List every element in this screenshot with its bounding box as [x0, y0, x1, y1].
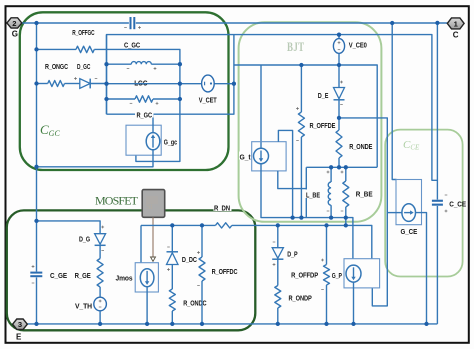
svg-text:C: C: [453, 30, 459, 39]
label V_CE0: [349, 41, 367, 50]
wire Jmos bottom stem: [146, 287, 148, 324]
svg-text:R_BE: R_BE: [356, 190, 373, 199]
current source G_P: [346, 265, 361, 282]
junction: [104, 97, 108, 101]
wire G_t box top loop: [278, 130, 292, 217]
junction: [34, 21, 38, 25]
label R_OFFDC: [212, 267, 238, 276]
junction: [290, 215, 294, 219]
svg-text:G_t: G_t: [240, 153, 252, 162]
capacitor C_GC: [124, 17, 141, 29]
junction: [104, 62, 108, 66]
svg-text:R_ONGC: R_ONGC: [45, 62, 68, 71]
resistor R_ONGC: [37, 81, 80, 87]
resistor R_ONDC: [169, 289, 175, 324]
label region MOSFET: [95, 194, 139, 208]
svg-text:E: E: [16, 333, 22, 342]
resistor R_ONDP: [275, 286, 281, 324]
svg-text:R_ONDC: R_ONDC: [183, 298, 206, 307]
svg-text:R_OFFDC: R_OFFDC: [212, 267, 238, 276]
junction: [200, 223, 204, 227]
junction: [351, 322, 355, 326]
wire L_BE section top y=167.3: [306, 167, 377, 217]
current source G_P box: [344, 259, 380, 288]
inductor L_BE: [327, 167, 332, 217]
junction: [324, 223, 328, 227]
junction: [200, 322, 204, 326]
junction: [299, 215, 303, 219]
junction: [299, 63, 303, 67]
junction: [344, 165, 348, 169]
diode D_E: [334, 81, 345, 118]
svg-text:R_OFFDP: R_OFFDP: [291, 270, 318, 279]
junction: [276, 322, 280, 326]
resistor R_DN (wire rail y=225.4): [141, 223, 372, 259]
svg-text:V_TH: V_TH: [75, 302, 92, 311]
junction: [390, 21, 394, 25]
junction: [344, 215, 348, 219]
wire G_gc feed from node: [152, 114, 154, 133]
label R_OFFGC: [72, 28, 94, 37]
junction: [98, 322, 102, 326]
label R_BE: [356, 190, 373, 199]
label C_GC: [124, 41, 140, 50]
svg-text:C_GE: C_GE: [50, 271, 67, 280]
label R_ONGC: [45, 62, 68, 71]
label LGC: [134, 78, 147, 87]
junction: [337, 63, 341, 67]
label region C_GC: [40, 122, 60, 138]
wire bottom rail E: [27, 323, 437, 325]
label V_TH: [75, 302, 92, 311]
svg-text:R_GC: R_GC: [137, 111, 153, 120]
junction: [329, 215, 333, 219]
svg-text:2: 2: [12, 19, 16, 28]
svg-text:BJT: BJT: [287, 39, 305, 54]
annotation arrow from MOSFET block to Jmos: [151, 217, 156, 261]
capacitor C_CE branch: [432, 23, 448, 324]
label G_CE: [400, 227, 418, 237]
label R_ONDP: [289, 294, 312, 303]
label D_G: [79, 235, 90, 244]
junction: [34, 81, 38, 85]
node E label: [16, 333, 22, 342]
label G_t: [239, 152, 251, 162]
junction: [424, 322, 428, 326]
port 2 (G) hexagon: [7, 18, 22, 28]
svg-text:R_GE: R_GE: [75, 271, 91, 280]
wire Jmos feed: [140, 225, 142, 262]
junction: [170, 223, 174, 227]
label G_gc: [164, 140, 177, 147]
junction: [34, 322, 38, 326]
label D_GC: [77, 62, 90, 71]
junction: [324, 322, 328, 326]
wire D_E node to right vertical feeding G_CE and G_P loop: [339, 118, 387, 306]
port 1 (C) hexagon: [447, 18, 464, 29]
wire G_CE output to bottom rail: [416, 213, 427, 324]
resistor R_GC: [107, 96, 180, 105]
svg-text:G_P: G_P: [332, 273, 342, 280]
label D_E: [318, 91, 329, 100]
svg-text:MOSFET: MOSFET: [95, 194, 139, 208]
current source G_CE box: [396, 180, 422, 225]
voltage sensor V_CET: [202, 75, 215, 92]
current source Jmos box: [135, 263, 158, 292]
label D_P: [287, 250, 298, 259]
resistor R_ONDE: [336, 118, 342, 167]
capacitor C_GE: [30, 221, 42, 324]
svg-text:D_E: D_E: [318, 91, 329, 100]
wire W2 long horizontal y=34.6: [107, 35, 438, 181]
port 3 (E) hexagon: [13, 319, 28, 329]
wire G_gc return to left rail: [37, 150, 154, 167]
wire G_P bottom stem: [353, 282, 355, 324]
junction: [178, 82, 182, 86]
resistor R_OFFDP: [321, 225, 329, 324]
current source G_t box: [252, 142, 286, 171]
label C_GE: [50, 271, 67, 280]
svg-text:G_CE: G_CE: [401, 229, 418, 236]
junction: [337, 165, 341, 169]
svg-text:D_G: D_G: [79, 235, 90, 244]
junction: [34, 47, 38, 51]
svg-text:R_ONDP: R_ONDP: [289, 294, 312, 303]
svg-text:R_DN: R_DN: [214, 204, 230, 213]
current source G_gc box: [126, 125, 161, 155]
wire G_t box bottom to L_BE section: [278, 171, 307, 189]
junction: [34, 219, 38, 223]
label R_OFFDE: [309, 120, 336, 131]
label C_CE: [449, 202, 466, 209]
wire bottom of LGC block y=114.2: [107, 35, 234, 115]
svg-text:V_CET: V_CET: [199, 95, 217, 104]
svg-text:D_DC: D_DC: [182, 255, 197, 264]
svg-text:G_gc: G_gc: [164, 140, 177, 147]
C_GC group box: [20, 12, 229, 170]
label V_CET: [199, 95, 217, 104]
node G label: [12, 30, 18, 39]
junction: [104, 82, 108, 86]
junction: [344, 223, 348, 227]
svg-text:R_OFFGC: R_OFFGC: [72, 28, 94, 37]
wire from top rail node down to G_CE box: [392, 23, 396, 180]
label R_DN: [214, 203, 232, 213]
label R_OFFDP: [291, 270, 318, 279]
label R_GE: [75, 271, 91, 280]
voltage source V_TH: [94, 297, 107, 324]
MOSFET grey block: [142, 190, 165, 218]
wire top rail G to C (W1): [22, 22, 448, 24]
label R_GC: [135, 111, 154, 120]
C_CE group box: [385, 130, 462, 277]
svg-text:R_ONDE: R_ONDE: [349, 142, 372, 151]
svg-text:R_OFFDE: R_OFFDE: [310, 121, 336, 130]
junction: [178, 97, 182, 101]
diode D_G: [95, 226, 106, 259]
label R_ONDE: [349, 142, 372, 151]
inductor LGC: [107, 62, 180, 70]
svg-text:LGC: LGC: [134, 78, 147, 87]
resistor R_OFFDC: [197, 225, 205, 324]
diode D_DC: [167, 225, 179, 289]
wire BJT internal top y=65: [234, 65, 377, 167]
wire G_t bottom stem: [261, 164, 353, 259]
diode D_GC: [74, 77, 106, 88]
junction: [337, 33, 341, 37]
current source G_gc: [146, 133, 160, 150]
svg-text:C_GC: C_GC: [124, 41, 140, 50]
MOSFET group box: [7, 210, 256, 330]
label G_P: [332, 273, 342, 280]
wire middle branch to V_CET: [107, 83, 234, 85]
svg-text:D_GC: D_GC: [77, 62, 90, 71]
voltage source V_CE0: [333, 35, 344, 88]
wire G_CE input stem: [387, 212, 402, 214]
svg-text:V_CE0: V_CE0: [349, 41, 367, 50]
wire G_t feed: [260, 65, 262, 149]
svg-text:G: G: [12, 30, 18, 39]
current source Jmos: [140, 269, 154, 287]
node C label: [453, 30, 459, 39]
junction: [170, 322, 174, 326]
wire left vertical from G node down: [36, 23, 38, 221]
svg-text:D_P: D_P: [287, 250, 298, 259]
LGC box left edge: [106, 35, 108, 115]
junction: [145, 322, 149, 326]
diode D_P: [272, 225, 283, 285]
junction: [34, 165, 38, 169]
resistor R_OFFDE: [296, 65, 304, 218]
label R_ONDC: [183, 298, 206, 307]
junction: [337, 116, 341, 120]
current source G_CE: [402, 204, 416, 222]
label L_BE: [306, 190, 321, 200]
wire D_G branch horizontal: [37, 221, 101, 234]
junction: [232, 82, 236, 86]
BJT group box: [239, 22, 382, 222]
label region C_CE: [403, 139, 420, 152]
label region BJT: [287, 39, 305, 54]
resistor R_GE: [97, 259, 103, 298]
junction: [435, 21, 439, 25]
junction: [178, 62, 182, 66]
current source G_t: [254, 148, 269, 163]
svg-text:L_BE: L_BE: [306, 191, 320, 200]
svg-text:3: 3: [18, 320, 22, 329]
junction: [276, 223, 280, 227]
resistor R_OFFGC: [37, 46, 180, 161]
label D_DC: [182, 255, 197, 264]
svg-text:Jmos: Jmos: [116, 276, 133, 283]
label Jmos: [116, 276, 133, 283]
svg-text:C_CE: C_CE: [449, 202, 466, 209]
resistor R_BE: [341, 167, 349, 225]
junction: [329, 165, 333, 169]
